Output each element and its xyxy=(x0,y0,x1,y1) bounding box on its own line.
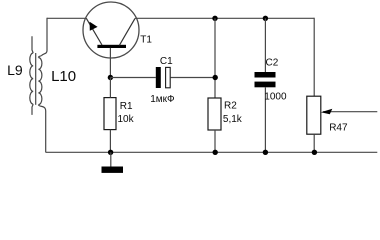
transistor T1 base lead xyxy=(109,48,111,78)
transistor T1 body circle xyxy=(83,2,139,58)
ground lead xyxy=(110,152,112,166)
node C2 bottom dot xyxy=(263,150,268,155)
wire right vertical down to R47 xyxy=(313,18,315,97)
wire C2 to bottom rail xyxy=(264,87,266,152)
inductor L10 winding arcs xyxy=(38,58,42,105)
resistor R2 xyxy=(208,98,221,130)
node R2 bottom dot xyxy=(213,150,218,155)
wire top to C2 xyxy=(264,18,266,72)
wire base node to C1 xyxy=(110,77,155,79)
inductor L9 winding bottom lead xyxy=(32,104,33,115)
transistor T1 emitter arrowhead xyxy=(90,22,98,31)
potentiometer R47 wiper line xyxy=(323,111,377,113)
svg-text:R1: R1 xyxy=(120,101,133,112)
svg-text:C1: C1 xyxy=(160,56,173,67)
inductor L9 winding top lead xyxy=(32,36,33,53)
wire top-left from transformer to transistor emitter xyxy=(47,17,86,19)
svg-text:L9: L9 xyxy=(7,62,23,78)
svg-text:T1: T1 xyxy=(140,35,152,46)
potentiometer R47 body xyxy=(307,96,321,134)
capacitor C1 right plate (open) xyxy=(166,67,171,87)
node C2 top dot xyxy=(263,16,268,21)
svg-text:1мкФ: 1мкФ xyxy=(150,94,175,105)
wire C1 to node B xyxy=(170,77,215,79)
svg-text:R2: R2 xyxy=(224,101,237,112)
resistor R1 xyxy=(104,98,116,130)
potentiometer R47 wiper arrowhead xyxy=(321,109,333,115)
wire top from transistor collector to right corner xyxy=(135,17,314,19)
inductor L9 winding arcs xyxy=(30,53,33,104)
node R47 bottom dot xyxy=(312,150,317,155)
svg-text:1000: 1000 xyxy=(264,92,287,103)
capacitor C2 top plate xyxy=(255,72,276,78)
transistor T1 collector line xyxy=(119,18,135,45)
wire vertical top to R2 xyxy=(214,18,216,98)
node B junction dot xyxy=(213,75,218,80)
node top wire to R2 dot xyxy=(212,16,217,21)
capacitor C1 left plate (filled) xyxy=(156,67,161,88)
svg-text:10k: 10k xyxy=(118,114,135,125)
wire bottom rail xyxy=(46,151,378,153)
transistor T1 base bar xyxy=(97,45,126,48)
inductor L10 winding bottom lead xyxy=(38,105,45,153)
svg-text:5,1k: 5,1k xyxy=(223,114,243,125)
node base junction dot xyxy=(108,75,113,80)
transistor T1 emitter line xyxy=(86,18,102,45)
resistor R2 bottom lead xyxy=(214,130,216,152)
potentiometer R47 bottom lead xyxy=(313,134,315,152)
inductor L10 winding top joint xyxy=(38,56,41,58)
node R1/ground junction dot xyxy=(108,150,113,155)
svg-text:L10: L10 xyxy=(51,68,76,85)
resistor R1 bottom lead xyxy=(109,130,111,153)
svg-text:C2: C2 xyxy=(266,57,279,68)
transformer core line xyxy=(35,53,37,105)
inductor L10 winding top lead xyxy=(41,18,47,56)
ground xyxy=(102,167,124,173)
resistor R1 top lead xyxy=(109,78,111,98)
capacitor C2 bottom plate xyxy=(255,82,276,88)
svg-text:R47: R47 xyxy=(329,123,348,134)
